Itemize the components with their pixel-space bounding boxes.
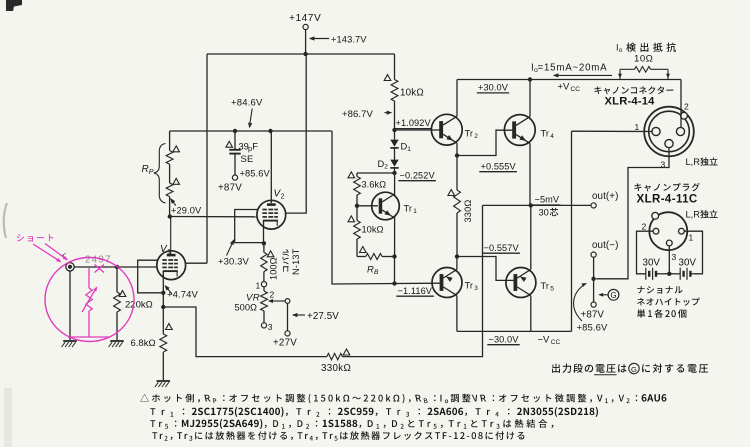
wire pin1 lead to battery — [684, 231, 702, 274]
svg-text:−0.557V: −0.557V — [484, 243, 520, 253]
svg-text:+29.0V: +29.0V — [171, 206, 202, 216]
wire V2 screen to +147V rail — [286, 54, 306, 213]
hot-side triangle 6.8k — [166, 324, 173, 330]
svg-text:R: R — [367, 265, 374, 276]
svg-text:+4.74V: +4.74V — [167, 290, 199, 301]
XLR-4-11C pin 1 — [679, 228, 685, 234]
svg-text:+87V: +87V — [581, 310, 605, 321]
hot-side triangle 100 ohm — [267, 251, 274, 257]
terminal +147V — [303, 24, 308, 29]
junction -1.116V rail — [392, 281, 396, 285]
junction Tr2 emitter node — [455, 153, 459, 157]
svg-text:1: 1 — [635, 122, 640, 132]
junction Tr2 base node — [392, 128, 396, 132]
svg-text:R: R — [142, 164, 149, 175]
svg-text:Tr: Tr — [541, 129, 549, 139]
svg-text:30V: 30V — [643, 258, 661, 269]
annotation short-circuit text (magenta) — [17, 234, 54, 242]
hot-side triangle 10k — [348, 216, 355, 222]
junction V1 cathode — [161, 291, 165, 295]
hot-side triangle 220k — [119, 291, 126, 297]
tube V2 6AU6 — [257, 200, 286, 229]
wire to 3.6k — [357, 172, 395, 174]
svg-text:+84.6V: +84.6V — [231, 98, 263, 109]
terminal VR pin1 — [261, 282, 266, 287]
svg-text:330Ω: 330Ω — [463, 200, 473, 223]
XLR-4-14 pin 2 — [676, 127, 684, 135]
wire Tr1 emitter node down to -1.116V rail — [394, 257, 396, 284]
terminal 39pF bottom (+87V test point) — [232, 175, 237, 180]
svg-text:10kΩ: 10kΩ — [400, 88, 424, 99]
svg-text:3: 3 — [672, 252, 677, 262]
wire feedback from cathode — [163, 307, 326, 357]
notes line 1 — [140, 394, 194, 403]
annotation circle (magenta) — [45, 258, 134, 342]
terminal +87V — [591, 302, 596, 307]
ground 220k — [110, 340, 124, 342]
resistor RP lower section — [169, 164, 171, 183]
wire cathode to 6.8k — [162, 293, 164, 334]
resistor 330 ohm interstage — [456, 156, 458, 191]
wire pin1 to -Vcc drop — [572, 130, 652, 132]
svg-text:Tr: Tr — [465, 129, 473, 139]
diode D2 — [390, 160, 398, 167]
label +27.5V with arrow — [293, 314, 305, 316]
wire V1 plate line to V2 grid — [170, 216, 258, 218]
svg-text:−V: −V — [538, 334, 551, 345]
diode D1 — [394, 130, 396, 140]
junction 39pF tap on +84.6V rail — [233, 129, 237, 133]
wire +147V to rail — [305, 30, 307, 54]
svg-text:+30.0V: +30.0V — [478, 83, 509, 93]
label cannon plug — [634, 183, 699, 192]
svg-text:F: F — [252, 142, 258, 152]
hot-side triangle 3.6k — [348, 172, 355, 178]
svg-text:+30.3V: +30.3V — [218, 257, 250, 268]
svg-text:XLR-4-11C: XLR-4-11C — [637, 194, 698, 206]
wire input line to V1 grid — [74, 266, 157, 268]
svg-text:+87V: +87V — [218, 183, 242, 194]
wire V2 plate lead — [270, 131, 272, 203]
hot-side triangle 39pF — [226, 141, 233, 147]
svg-text:2497: 2497 — [85, 255, 112, 266]
tube V1 6AU6 — [157, 251, 186, 280]
XLR-4-14 keying notch — [681, 112, 688, 119]
wire V1 screen lead — [186, 262, 207, 264]
svg-text:30: 30 — [539, 208, 549, 218]
connector XLR-4-11C (plug) — [649, 212, 687, 250]
label small input mark — [61, 253, 66, 258]
VR wiper with arrow — [272, 300, 288, 302]
label Copal N-13T vertical — [282, 249, 289, 272]
svg-text:2: 2 — [642, 222, 647, 232]
wire +147V rail — [207, 53, 395, 55]
hot-side triangle 10k top — [384, 75, 391, 81]
connector XLR-4-14 (panel) — [644, 107, 694, 157]
XLR-4-11C pin 3 — [666, 240, 672, 246]
symbol G circle — [608, 289, 619, 300]
svg-text:1: 1 — [413, 208, 417, 215]
svg-text:2: 2 — [270, 290, 275, 300]
wire pin3 to output common — [596, 148, 669, 279]
hot-side triangle RP lower — [173, 178, 180, 184]
curly brace RP — [154, 144, 166, 204]
resistor 100 ohm cathode — [263, 243, 265, 252]
junction output emitters — [529, 203, 533, 207]
junction V2 plate on +84.6V rail — [268, 129, 272, 133]
junction Tr1 base node — [355, 204, 359, 208]
svg-text:2: 2 — [384, 164, 388, 171]
svg-text:Tr: Tr — [465, 281, 473, 291]
capacitor 39pF SE — [234, 131, 236, 149]
transistor Tr5 MJ2955 (PNP) — [506, 268, 536, 298]
wire pin3 to battery center — [668, 246, 670, 274]
wire V1 g3 tie to cathode — [138, 260, 164, 293]
terminal out(+) — [591, 203, 596, 208]
svg-text:−0.252V: −0.252V — [400, 170, 436, 180]
svg-text:L,R: L,R — [686, 210, 701, 220]
junction D2 / Tr1 collector — [392, 171, 396, 175]
wire V1 screen drop — [206, 54, 208, 263]
svg-text:=15mA~20mA: =15mA~20mA — [538, 63, 608, 74]
resistor 6.8k cathode — [160, 334, 167, 352]
notes line 3 — [150, 420, 162, 427]
svg-text:out(+): out(+) — [592, 191, 618, 202]
svg-text:4: 4 — [550, 133, 554, 140]
svg-text:1: 1 — [407, 146, 411, 153]
wire -Vcc rail — [457, 330, 572, 332]
svg-text:N-13T: N-13T — [291, 248, 301, 275]
resistor RB (emitter) — [357, 256, 366, 258]
scan artifact: left-edge grey arc — [4, 203, 7, 238]
wire RP to V1 plate node — [169, 197, 171, 217]
annotation arrows (magenta) — [33, 244, 60, 262]
svg-text:Tr: Tr — [541, 281, 549, 291]
svg-text:+85.6V: +85.6V — [577, 323, 609, 334]
wire V2 g3 tie to cathode — [235, 210, 264, 243]
transistor Tr2 2SC959 (NPN) — [431, 114, 462, 145]
svg-text:−30.0V: −30.0V — [489, 334, 520, 344]
label 100 ohm vertical — [269, 257, 279, 280]
wire -Vcc vertical x571 — [571, 131, 573, 331]
wire pin2 to +Vcc rail — [680, 80, 682, 128]
junction Tr4 collector — [528, 77, 532, 81]
svg-text:10Ω: 10Ω — [634, 54, 653, 65]
svg-text:−1.116V: −1.116V — [398, 286, 433, 296]
svg-text:220kΩ: 220kΩ — [125, 300, 153, 311]
svg-text:+V: +V — [558, 82, 571, 93]
junction out(-) / XLR pin3 — [591, 277, 595, 281]
wire out(+) line — [483, 204, 592, 206]
arrow G to output common — [600, 294, 608, 296]
terminal VR pin3 — [261, 323, 266, 328]
svg-text:330kΩ: 330kΩ — [321, 363, 351, 374]
svg-text:CC: CC — [551, 339, 561, 346]
wire V1 cathode lead — [162, 271, 164, 293]
svg-text:1: 1 — [167, 249, 171, 256]
svg-text:500Ω: 500Ω — [235, 303, 258, 313]
label cannon connector — [594, 86, 673, 94]
svg-text:SE: SE — [241, 154, 254, 164]
resistor 3.6k — [356, 173, 358, 177]
hot-side triangle RB — [360, 247, 367, 253]
svg-text:2: 2 — [281, 194, 285, 201]
svg-text:o: o — [619, 47, 623, 54]
svg-text:+143.7V: +143.7V — [331, 35, 367, 45]
svg-text:3: 3 — [268, 322, 273, 332]
scan artifact: faint left-edge band — [4, 388, 12, 447]
junction V1 plate node — [168, 214, 172, 218]
wire +Vcc rail — [457, 79, 681, 81]
svg-text:3: 3 — [474, 285, 478, 292]
label 330 ohm vertical — [463, 200, 473, 223]
annotation X mark (magenta) — [95, 265, 105, 273]
svg-text:6.8kΩ: 6.8kΩ — [131, 338, 156, 349]
svg-text:+1.092V: +1.092V — [396, 118, 432, 128]
XLR-4-14 pin 3 — [665, 140, 673, 148]
svg-text:out(−): out(−) — [592, 240, 618, 251]
ground 6.8k — [157, 380, 171, 382]
svg-text:1: 1 — [689, 233, 694, 243]
hot-side triangle RP upper — [173, 146, 180, 152]
svg-text:3.6kΩ: 3.6kΩ — [362, 180, 387, 190]
junction Tr1 emitter / RB — [392, 254, 396, 258]
svg-text:CC: CC — [571, 86, 581, 93]
label National Neo Hi-Top battery — [637, 286, 682, 294]
hot-side triangle 330 — [448, 190, 455, 196]
note: output voltages referenced to G — [552, 364, 627, 373]
junction +147V rail — [303, 52, 307, 56]
hot-side triangle 330k — [343, 349, 350, 355]
transistor Tr4 2N3055 (NPN) — [504, 115, 535, 146]
svg-text:+27.5V: +27.5V — [307, 311, 339, 322]
svg-text:G: G — [631, 365, 637, 374]
XLR-4-14 pin 1 — [652, 127, 660, 135]
label +4.74V with arrow — [165, 286, 172, 294]
resistor 220k grid leak — [116, 267, 118, 292]
svg-text:10kΩ: 10kΩ — [362, 225, 384, 235]
XLR-4-11C pin 2 — [653, 228, 659, 234]
wire bias drop x=332 to -1.116V rail — [332, 131, 440, 284]
transistor Tr1 2SC1775 — [372, 192, 400, 220]
wire pin2 lead to battery — [637, 231, 654, 274]
wire input terminal to ground — [69, 271, 71, 340]
XLR-4-11C keying notch — [652, 212, 659, 219]
svg-text:+86.7V: +86.7V — [342, 109, 374, 120]
svg-text:2: 2 — [684, 102, 689, 112]
svg-text:+0.555V: +0.555V — [481, 161, 517, 171]
svg-text:+85.6V: +85.6V — [240, 169, 271, 179]
junction V1 cathode feedback tap — [161, 305, 165, 309]
wire out(-) to +87V terminal — [593, 257, 595, 302]
resistor 10k Tr1 base — [356, 206, 358, 221]
scan artifact: top-left corner mark — [6, 0, 22, 11]
svg-text:L,R: L,R — [686, 157, 701, 167]
wire wiper to +27V terminal — [285, 299, 290, 304]
svg-text:2: 2 — [474, 133, 478, 140]
potentiometer VR 500 ohm — [263, 287, 265, 291]
svg-text:+27V: +27V — [273, 338, 297, 349]
notes line 2 — [150, 408, 164, 415]
svg-text:XLR-4-14: XLR-4-14 — [605, 96, 656, 108]
svg-text:5: 5 — [550, 286, 554, 293]
battery right 30V — [669, 273, 680, 275]
svg-text:Tr: Tr — [404, 204, 412, 214]
svg-text:G: G — [610, 291, 616, 300]
svg-text:100Ω: 100Ω — [269, 257, 279, 280]
resistor 10 ohm current sense — [619, 69, 621, 79]
label Io current arrow — [554, 74, 612, 76]
ground input — [63, 340, 77, 342]
transistor Tr3 2SA606 (PNP) — [432, 268, 462, 298]
resistor 330k feedback — [327, 353, 343, 359]
junction Tr3 emitter node — [455, 254, 459, 258]
label +143.7V with arrow — [310, 38, 329, 40]
annotation bottom wire (magenta) — [68, 336, 109, 338]
svg-text:−5mV: −5mV — [535, 195, 560, 205]
wire +84.6V rail (V2 plate node) — [170, 130, 332, 132]
svg-text:P: P — [149, 169, 154, 176]
battery left 30V — [645, 268, 647, 280]
svg-text:1: 1 — [256, 281, 261, 291]
junction 220k tap — [115, 265, 119, 269]
wire feedback to output node — [342, 205, 482, 356]
wire V2 cathode lead — [263, 221, 265, 244]
notes line 4 — [152, 432, 163, 439]
junction battery center — [667, 272, 671, 276]
svg-text:+147V: +147V — [289, 13, 321, 24]
resistor RP upper section — [169, 131, 171, 151]
svg-text:B: B — [374, 269, 379, 276]
junction V2 cathode node — [262, 241, 266, 245]
annotation resistor (magenta) — [88, 268, 90, 288]
input terminal (double circle) — [66, 263, 74, 271]
svg-text:30V: 30V — [679, 258, 697, 269]
resistor 10k from +147V rail — [394, 54, 396, 80]
